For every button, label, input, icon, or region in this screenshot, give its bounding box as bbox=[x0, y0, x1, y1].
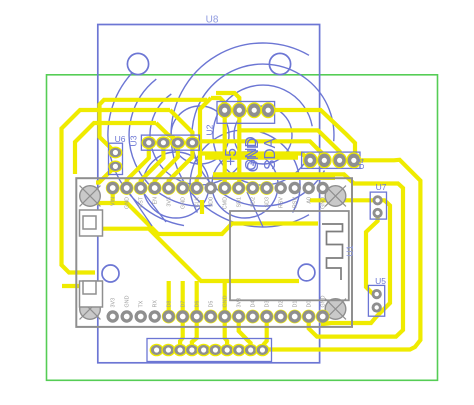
wire mid B bbox=[91, 203, 318, 234]
svg-text:U4: U4 bbox=[356, 158, 366, 169]
module U8 outline bbox=[98, 25, 320, 363]
svg-text:GND: GND bbox=[321, 295, 327, 307]
wire mid stub D8 bbox=[167, 281, 171, 310]
wire U6 to VIN bbox=[96, 166, 115, 182]
svg-text:U3: U3 bbox=[129, 135, 139, 146]
mounting hole H4 bbox=[298, 264, 315, 281]
svg-text:U1: U1 bbox=[345, 245, 355, 257]
NodeMCU mount pad bottom-left bbox=[80, 299, 101, 320]
header U7 bbox=[370, 192, 386, 219]
NodeMCU bottom pin row bbox=[107, 310, 119, 322]
wire U3 pad1 fan bbox=[127, 143, 149, 184]
svg-text:RSV: RSV bbox=[279, 197, 285, 208]
svg-text:RSV: RSV bbox=[293, 197, 299, 208]
svg-text:SDA: SDA bbox=[262, 137, 279, 170]
wire D7 to header bbox=[180, 322, 183, 345]
wire U3 pad2 fan bbox=[141, 143, 164, 184]
svg-text:U7: U7 bbox=[376, 182, 387, 192]
svg-text:D8: D8 bbox=[167, 301, 173, 308]
ratsnest line 3 bbox=[247, 192, 263, 227]
svg-text:A0: A0 bbox=[307, 197, 313, 204]
svg-text:SD0: SD0 bbox=[209, 197, 215, 208]
header U4 bbox=[302, 152, 360, 168]
header J1 bottom bbox=[147, 339, 272, 362]
svg-text:+5: +5 bbox=[223, 148, 240, 166]
NodeMCU top pin row bbox=[106, 181, 120, 195]
svg-text:D0: D0 bbox=[307, 301, 313, 308]
mounting hole H1 bbox=[127, 53, 148, 74]
wire left outer loop bbox=[62, 110, 171, 273]
svg-text:U5: U5 bbox=[375, 276, 386, 286]
wire hat right to U3 pad4 bbox=[170, 110, 192, 143]
svg-text:GND: GND bbox=[321, 197, 327, 209]
wire U4 pad4 to right bus bbox=[264, 160, 420, 350]
wire fan elbow bbox=[239, 322, 251, 345]
wire mid stub D6 bbox=[195, 281, 199, 310]
ratsnest line 2 bbox=[141, 189, 166, 222]
ESP antenna meander bbox=[322, 224, 343, 280]
svg-text:VIN: VIN bbox=[111, 197, 117, 206]
wire U7 to U5 link bbox=[366, 214, 378, 294]
svg-text:RX: RX bbox=[153, 300, 159, 308]
wire U3 pad4 fan bbox=[169, 143, 193, 184]
wire mid A bbox=[99, 229, 299, 281]
wire VIN stub bbox=[111, 192, 115, 205]
NodeMCU board outline bbox=[76, 178, 352, 327]
wire U6 top link bbox=[100, 100, 208, 153]
svg-text:CLK: CLK bbox=[195, 197, 201, 208]
header U3 bbox=[141, 135, 199, 150]
wire mid stub v202 bbox=[200, 200, 204, 214]
NodeMCU mount pad top-left bbox=[80, 186, 101, 207]
wire to U2 pad1 bbox=[211, 98, 225, 110]
NodeMCU button left bottom bbox=[80, 281, 103, 307]
svg-text:RST: RST bbox=[139, 196, 145, 207]
ratsnest line 1 bbox=[127, 189, 152, 226]
svg-text:CMD: CMD bbox=[223, 197, 229, 209]
wire fan x224 bbox=[225, 322, 227, 345]
wire left inner bottom stub bbox=[62, 284, 90, 288]
svg-text:SD1: SD1 bbox=[237, 197, 243, 208]
svg-text:GND: GND bbox=[125, 197, 131, 209]
NodeMCU mount pad bottom-right bbox=[325, 299, 346, 320]
svg-text:3V3: 3V3 bbox=[237, 298, 243, 308]
wire MH5 bbox=[205, 156, 298, 160]
wire MH2 bbox=[239, 130, 339, 158]
wire U2 feed vertical bbox=[197, 98, 211, 184]
wire U7 right C to bus bbox=[323, 200, 390, 324]
svg-text:D3: D3 bbox=[265, 301, 271, 308]
svg-text:D2: D2 bbox=[279, 301, 285, 308]
antenna arc set right bbox=[171, 43, 334, 227]
svg-text:GND: GND bbox=[245, 138, 262, 172]
wire MH1 U2 pad4 to U4 pad4 bbox=[268, 110, 355, 157]
wire to U2 pad2 bbox=[216, 93, 239, 110]
wire MH4 bbox=[199, 154, 310, 162]
svg-text:3V3: 3V3 bbox=[111, 298, 117, 308]
svg-text:U6: U6 bbox=[115, 134, 126, 144]
mounting hole H2 bbox=[269, 53, 290, 74]
ESP module U1 outline bbox=[230, 211, 349, 300]
wire D6 to header bbox=[192, 322, 197, 345]
NodeMCU mount pad top-right bbox=[325, 186, 346, 207]
header U2 bbox=[217, 102, 275, 124]
wire mid stub D5 bbox=[223, 282, 227, 310]
wire U7 top left bbox=[310, 198, 378, 202]
svg-text:U8: U8 bbox=[206, 15, 219, 26]
wire MH6 bbox=[213, 174, 403, 336]
svg-text:D4: D4 bbox=[251, 301, 257, 308]
header U6 bbox=[109, 143, 123, 174]
svg-text:SD2: SD2 bbox=[251, 197, 257, 208]
svg-text:SD3: SD3 bbox=[265, 197, 271, 208]
wire MH7 bbox=[213, 176, 335, 180]
svg-text:D5: D5 bbox=[209, 301, 215, 308]
antenna arc set left bbox=[108, 73, 238, 225]
wire left inner loop bbox=[75, 123, 156, 174]
wire MH3 bbox=[199, 141, 324, 158]
svg-text:EN: EN bbox=[153, 197, 159, 205]
wire inner hat right to U3 pad3 bbox=[156, 123, 178, 143]
wire fan long bbox=[264, 322, 267, 350]
wire U3 pad3 fan bbox=[155, 143, 178, 184]
svg-text:GND: GND bbox=[223, 295, 229, 307]
wire U2 pad1 down bbox=[223, 112, 227, 184]
svg-text:D6: D6 bbox=[195, 301, 201, 308]
wire U2 pad2 down bbox=[237, 112, 241, 184]
svg-text:3V3: 3V3 bbox=[167, 197, 173, 207]
board outline (green PCB edge) bbox=[47, 75, 438, 381]
svg-text:D1: D1 bbox=[293, 301, 299, 308]
svg-text:TX: TX bbox=[139, 300, 145, 307]
header U5 bbox=[368, 285, 384, 316]
svg-text:GND: GND bbox=[125, 295, 131, 307]
svg-text:D7: D7 bbox=[181, 301, 187, 308]
NodeMCU button left top bbox=[80, 210, 103, 236]
mounting hole H3 bbox=[102, 265, 119, 282]
wire mid stub D7 bbox=[181, 281, 185, 310]
svg-text:U2: U2 bbox=[205, 124, 215, 135]
svg-text:GND: GND bbox=[181, 197, 187, 209]
